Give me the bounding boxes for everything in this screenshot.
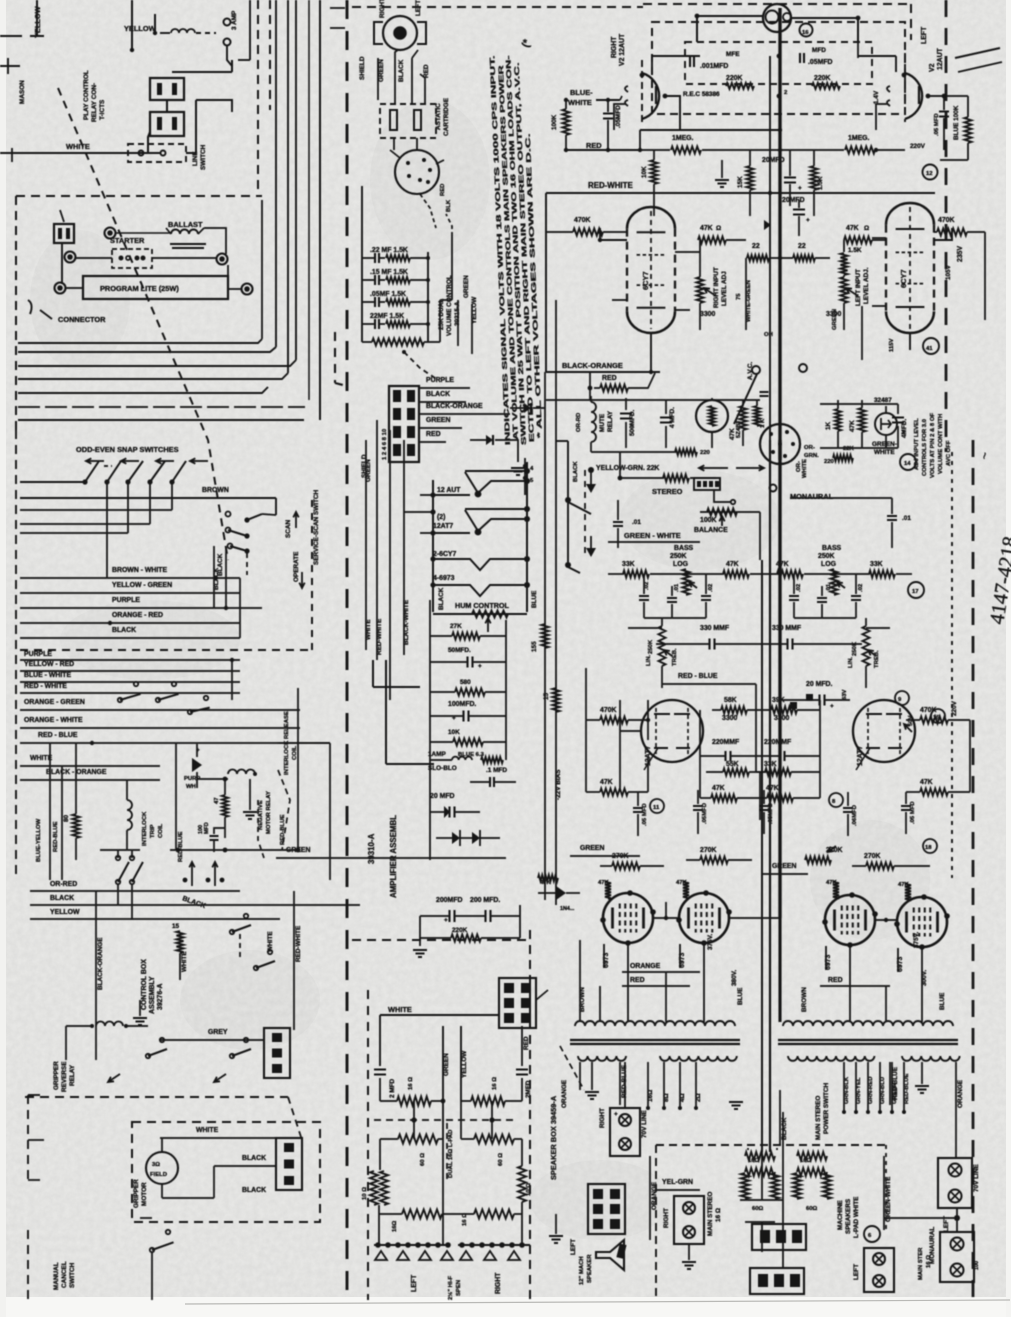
ground - main stereo right xyxy=(682,1244,696,1269)
svg-text:(2): (2) xyxy=(437,514,445,521)
switch - snap switch bank xyxy=(20,458,208,484)
capacitor .05MFD input xyxy=(603,100,622,152)
svg-text:RED-WHITE: RED-WHITE xyxy=(376,618,383,655)
wire - brown-white xyxy=(20,567,240,580)
svg-text:BLACK: BLACK xyxy=(242,1155,266,1162)
label ORANGE xfmr xyxy=(561,1062,599,1108)
capacitor/resistor 22MF 1.5K xyxy=(362,313,430,329)
svg-text:SCAN: SCAN xyxy=(285,520,292,538)
terminal - right 70V line xyxy=(599,1108,648,1156)
svg-text:OPERATE: OPERATE xyxy=(293,551,300,582)
svg-text:ORANGE - WHITE: ORANGE - WHITE xyxy=(24,717,83,724)
wire - orange-red xyxy=(20,612,240,625)
capacitor 2MFD spk right xyxy=(516,1070,532,1102)
svg-text:TREB.: TREB. xyxy=(874,650,880,668)
resistor 16ohm s1 xyxy=(380,1077,443,1110)
wire - black-orange3 xyxy=(20,769,160,780)
wire - mid risers xyxy=(278,688,330,880)
svg-text:47K: 47K xyxy=(700,225,713,232)
circle tp 15 xyxy=(908,709,945,726)
svg-text:RED: RED xyxy=(523,1036,530,1050)
svg-text:220MMF: 220MMF xyxy=(764,739,791,746)
switch - control contacts1 xyxy=(230,905,251,960)
svg-text:60Ω: 60Ω xyxy=(752,1206,764,1212)
resistor 270K a xyxy=(600,853,664,870)
terminal - starter left xyxy=(65,252,76,263)
label GREEN-WHITE mid xyxy=(608,512,760,542)
svg-text:GREEN-WHITE: GREEN-WHITE xyxy=(885,1176,892,1222)
label machine speakers lpad xyxy=(837,1196,860,1238)
label ORANGE far right xyxy=(956,1062,964,1115)
label - speaker box xyxy=(549,1095,558,1180)
svg-text:MUTE: MUTE xyxy=(599,413,606,432)
svg-text:RED - WHITE: RED - WHITE xyxy=(24,683,67,690)
svg-text:WHITE: WHITE xyxy=(388,1005,412,1014)
svg-text:220V: 220V xyxy=(951,700,958,716)
label YELLOW-GRN 22K xyxy=(573,452,716,555)
wire - tone mid rails xyxy=(608,548,940,618)
svg-text:DUAL 16Ω L-PAD: DUAL 16Ω L-PAD xyxy=(448,1130,454,1178)
svg-text:BALANCE: BALANCE xyxy=(694,527,728,534)
svg-text:47K: 47K xyxy=(920,779,933,786)
capacitor .05MFD d5 xyxy=(901,792,916,834)
capacitor .01 right xyxy=(790,498,911,548)
svg-text:10K: 10K xyxy=(448,729,460,736)
svg-text:CARTRIDGE: CARTRIDGE xyxy=(443,97,450,136)
wire - purple2 xyxy=(20,651,240,660)
ground - control box xyxy=(133,1000,180,1025)
svg-text:BLACK: BLACK xyxy=(438,587,445,610)
svg-text:BLACK-ORANGE: BLACK-ORANGE xyxy=(562,361,623,370)
resistor 470K drv-l xyxy=(586,700,650,740)
svg-text:LIN.: LIN. xyxy=(848,657,854,668)
svg-text:STARTER: STARTER xyxy=(110,236,145,245)
svg-text:BLACK: BLACK xyxy=(398,59,405,82)
svg-text:80: 80 xyxy=(63,814,70,822)
svg-text:GRN.: GRN. xyxy=(804,453,819,459)
svg-text:NEGATIVE: NEGATIVE xyxy=(258,800,264,830)
relay - gripper reverse relay xyxy=(53,1022,128,1093)
svg-text:-22V BIAS: -22V BIAS xyxy=(555,769,562,800)
wire - blue-white2 xyxy=(20,672,240,682)
wire - harness bundle horizontals xyxy=(18,339,305,420)
svg-text:MOTOR: MOTOR xyxy=(141,1182,148,1206)
potentiometer treble right xyxy=(848,618,880,688)
resistor RED mute xyxy=(588,373,655,400)
svg-text:100: 100 xyxy=(974,1261,980,1270)
svg-text:470K: 470K xyxy=(920,707,936,714)
svg-text:MFD: MFD xyxy=(204,822,210,834)
svg-text:GREEN: GREEN xyxy=(378,59,385,82)
note - measurement conditions (rotated) xyxy=(489,37,544,445)
svg-text:.02: .02 xyxy=(858,583,864,592)
switch - gripper contacts xyxy=(108,1026,251,1082)
label CONNECTOR xyxy=(28,300,106,324)
wire - red-blue xyxy=(20,732,330,745)
wire - left supply rail xyxy=(430,600,506,860)
svg-text:LOG: LOG xyxy=(821,561,836,568)
svg-text:.05MFD: .05MFD xyxy=(808,59,833,66)
svg-text:1.5K: 1.5K xyxy=(848,247,862,254)
svg-text:220V: 220V xyxy=(910,143,926,150)
cartridge - astatic xyxy=(380,97,450,150)
wire - yellow fuse feed xyxy=(130,0,157,52)
terminal - right mid xyxy=(217,254,229,288)
resistor 47K tone-l xyxy=(686,561,780,578)
svg-text:.01: .01 xyxy=(632,519,641,526)
label BLUE-WHITE xyxy=(568,88,622,107)
resistor 100K vertical xyxy=(551,98,570,150)
diode bias 1 xyxy=(538,875,580,912)
svg-text:470K: 470K xyxy=(938,217,954,224)
svg-text:270K: 270K xyxy=(864,853,880,860)
svg-text:COIL: COIL xyxy=(158,824,164,838)
resistor 10ohm s left xyxy=(362,1170,388,1214)
capacitor/resistor .15 MF 1.5K xyxy=(362,269,430,285)
svg-text:20 MFD: 20 MFD xyxy=(430,793,455,800)
svg-text:375V.: 375V. xyxy=(707,934,714,950)
wire - amplifier dashed right edge lower xyxy=(972,440,975,1300)
svg-text:+: + xyxy=(830,703,834,710)
label red-blue rot2 xyxy=(278,770,290,850)
wire - pin4-5 drops xyxy=(523,458,534,495)
svg-text:LEFT: LEFT xyxy=(853,1264,860,1280)
svg-text:.01: .01 xyxy=(674,583,680,592)
wire - harness verticals to selector xyxy=(262,0,320,420)
svg-text:INTERLOCK: INTERLOCK xyxy=(142,811,148,846)
potentiometer left input level xyxy=(826,267,870,330)
svg-text:20 MFD.: 20 MFD. xyxy=(806,681,833,688)
svg-text:330 MMF: 330 MMF xyxy=(700,625,729,632)
svg-text:330 MMF: 330 MMF xyxy=(772,625,801,632)
svg-text:GRN-BLK: GRN-BLK xyxy=(844,1076,850,1104)
svg-text:BLUE 100K: BLUE 100K xyxy=(953,105,960,140)
heater 4-6973 xyxy=(430,575,530,596)
svg-text:70V LINE: 70V LINE xyxy=(973,1164,980,1192)
svg-text:22: 22 xyxy=(752,243,760,250)
label - vertical wire colors xyxy=(365,459,410,655)
wire - control box dashed separator xyxy=(25,1097,302,1140)
resistor 22 left xyxy=(746,243,782,261)
heater 2-6CY7 xyxy=(430,551,530,570)
switch - interlock lower contacts xyxy=(100,800,300,920)
label OR-GRN 220 xyxy=(804,441,897,465)
capacitor 4MFD right xyxy=(892,404,908,448)
wire - dual lpad divider xyxy=(374,1101,516,1180)
switch - service scan switch xyxy=(214,512,305,609)
capacitor .01 r2 xyxy=(817,583,832,618)
capacitor .05MFD d3 xyxy=(759,790,774,834)
svg-text:PURPLE: PURPLE xyxy=(112,597,140,604)
svg-text:RELAY CON-: RELAY CON- xyxy=(91,83,98,122)
resistor 47K drv-c2 xyxy=(760,785,820,802)
svg-text:YELLOW: YELLOW xyxy=(124,24,156,33)
svg-text:YEL-GRN: YEL-GRN xyxy=(662,1179,693,1186)
label YELLOW xyxy=(124,24,156,33)
svg-text:15K: 15K xyxy=(737,176,744,188)
svg-text:SPEAKERS: SPEAKERS xyxy=(845,1198,852,1234)
svg-text:BLACK: BLACK xyxy=(213,567,220,590)
svg-text:RIGHT: RIGHT xyxy=(663,1208,670,1228)
wire - mute bus blades xyxy=(556,441,596,573)
wire - black drop xyxy=(780,1090,783,1230)
wire - plate drops xyxy=(580,940,922,1022)
svg-text:12" MACH: 12" MACH xyxy=(579,1256,585,1285)
label RED-BLUE sec xyxy=(620,1062,628,1105)
wire - shield leads xyxy=(359,50,430,104)
svg-text:1MEG.: 1MEG. xyxy=(848,135,870,142)
label RED-BLUE xyxy=(590,668,756,700)
svg-text:GRN-RED: GRN-RED xyxy=(868,1077,874,1105)
svg-text:25K DUAL: 25K DUAL xyxy=(438,299,445,330)
potentiometer right input level xyxy=(697,252,729,330)
svg-text:1MEG.: 1MEG. xyxy=(672,135,694,142)
connector - speaker box head xyxy=(499,978,548,1028)
potentiometer - hum control xyxy=(433,601,527,632)
tube V2 12AU7 right half xyxy=(876,26,949,150)
potentiometer 100K balance xyxy=(620,509,737,535)
svg-text:ORANGE - RED: ORANGE - RED xyxy=(112,612,163,619)
svg-text:T-ICTS: T-ICTS xyxy=(99,99,106,120)
wire - stereo rails xyxy=(620,498,790,560)
potentiometer bass 250K right xyxy=(818,545,845,595)
wire - relay area rails xyxy=(546,400,898,452)
tube 6CY7 left xyxy=(598,207,700,372)
wire - yellow lead top-left xyxy=(30,0,44,38)
label YELLOW spk xyxy=(461,1026,468,1101)
svg-text:250K: 250K xyxy=(852,641,858,656)
tube 12AT7 left xyxy=(620,700,703,770)
fuse 1AMP SLO-BLO xyxy=(428,751,503,772)
svg-text:CONTROLS FOR 3.0: CONTROLS FOR 3.0 xyxy=(922,418,928,476)
svg-text:ADJ INPUT LEVEL: ADJ INPUT LEVEL xyxy=(914,418,920,470)
label WHITE spk xyxy=(380,1005,499,1066)
svg-text:47K: 47K xyxy=(846,225,859,232)
wire - speaker box second dashed edge xyxy=(367,990,369,1300)
wire - to amp xyxy=(440,214,452,342)
svg-text:250K: 250K xyxy=(648,639,654,654)
wire - orange-white xyxy=(20,658,300,728)
svg-text:SPEAKER BOX 39459-A: SPEAKER BOX 39459-A xyxy=(549,1095,558,1180)
label ORANGE right-mid xyxy=(650,1156,658,1240)
wire - grid caps dashed inner box xyxy=(683,42,880,104)
rectifier - ballast lamp xyxy=(696,398,742,448)
label GREEN YELLOW rotated xyxy=(458,275,478,354)
phono plug xyxy=(374,0,426,50)
resistor 47K out4 xyxy=(898,882,911,901)
svg-text:WHITE: WHITE xyxy=(267,931,274,952)
svg-text:RED: RED xyxy=(602,375,617,382)
svg-text:LEVEL ADJ.: LEVEL ADJ. xyxy=(863,267,870,304)
svg-text:CONTROL BOX: CONTROL BOX xyxy=(141,959,148,1010)
svg-text:60 Ω: 60 Ω xyxy=(420,1153,426,1166)
svg-text:100K: 100K xyxy=(700,517,716,524)
resistor 47K tone-r xyxy=(776,561,836,578)
svg-text:.22 MF 1.5K: .22 MF 1.5K xyxy=(370,247,408,254)
svg-text:WHITE: WHITE xyxy=(874,449,895,456)
svg-text:.05 MFD: .05 MFD xyxy=(642,803,648,826)
svg-text:WHITE: WHITE xyxy=(568,98,592,107)
capacitor .02 r1 xyxy=(789,574,802,618)
svg-text:WHITE: WHITE xyxy=(365,619,372,640)
svg-text:14: 14 xyxy=(904,461,911,467)
label - amplifier assembly xyxy=(367,815,398,898)
label RED xyxy=(564,130,642,152)
resistor 33K left xyxy=(608,561,688,578)
wire - left bias column xyxy=(531,193,562,905)
svg-text:+: + xyxy=(614,1111,618,1118)
svg-text:MAIN STER: MAIN STER xyxy=(918,1247,924,1280)
svg-text:R.E.C 58386: R.E.C 58386 xyxy=(683,91,720,98)
terminal - left main stereo xyxy=(853,1226,932,1292)
connector - left mach speaker xyxy=(570,1184,625,1285)
label black-orange rot xyxy=(96,891,104,1060)
resistor 47K drv-r xyxy=(906,720,970,796)
svg-text:16Ω: 16Ω xyxy=(392,1220,398,1232)
svg-text:270K: 270K xyxy=(612,853,628,860)
svg-text:2 MFD: 2 MFD xyxy=(389,1078,396,1098)
tube 6973 #2 xyxy=(676,890,732,968)
svg-text:GREEN: GREEN xyxy=(832,309,838,330)
wire - 330mmf bus xyxy=(628,624,890,644)
wire - grid caps dashed outer box xyxy=(652,22,905,114)
wire - output tube links xyxy=(653,880,897,922)
svg-text:3300: 3300 xyxy=(700,311,715,318)
terminal - speaker right lugs xyxy=(447,1214,530,1300)
svg-text:RIGHT: RIGHT xyxy=(611,36,618,58)
resistor 270K c xyxy=(805,846,842,864)
resistor 47K out3 xyxy=(826,880,839,899)
svg-text:RED: RED xyxy=(440,184,446,196)
heater (2) 12AT7 xyxy=(404,506,530,536)
resistor 470K left xyxy=(546,217,627,236)
svg-text:115V: 115V xyxy=(889,338,895,352)
capacitor/resistor .05MF 1.5K xyxy=(362,291,430,307)
wire - dashed diagonal connector boundary xyxy=(58,88,228,560)
svg-text:LEFT: LEFT xyxy=(921,26,928,44)
svg-text:ODD-EVEN SNAP SWITCHES: ODD-EVEN SNAP SWITCHES xyxy=(76,445,179,454)
wire - yellow4 xyxy=(30,909,280,919)
terminal - speaker left lugs xyxy=(374,1139,453,1292)
capacitor .02 l3 xyxy=(701,574,714,618)
svg-text:PURPLE: PURPLE xyxy=(24,651,52,658)
wire - left rot labels xyxy=(36,743,62,880)
svg-text:PROGRAM LITE (25W): PROGRAM LITE (25W) xyxy=(100,284,179,293)
svg-text:V2: V2 xyxy=(929,63,936,72)
svg-text:RIGHT: RIGHT xyxy=(599,1108,606,1128)
label 375V right xyxy=(731,932,946,1012)
svg-text:100MFD.: 100MFD. xyxy=(448,701,476,708)
svg-text:27K: 27K xyxy=(450,623,462,630)
resistor 270K b xyxy=(686,847,752,864)
svg-text:375V.: 375V. xyxy=(913,932,920,948)
svg-text:580: 580 xyxy=(460,679,471,686)
svg-text:47K: 47K xyxy=(776,561,789,568)
wire - interlock contacts xyxy=(118,660,210,714)
svg-text:60 Ω: 60 Ω xyxy=(498,1153,504,1166)
resistor 10ohm s right xyxy=(518,1139,532,1214)
svg-text:4-6973: 4-6973 xyxy=(433,575,455,582)
svg-text:BROWN - WHITE: BROWN - WHITE xyxy=(112,567,168,574)
label - line switch xyxy=(192,144,207,170)
capacitor/resistor .22 MF 1.5K xyxy=(362,247,430,263)
resistor 47K drv-l xyxy=(586,756,648,796)
resistor 33K right xyxy=(834,561,924,598)
capacitor 200MFD pair xyxy=(276,847,520,957)
wire WHITE xyxy=(0,132,150,153)
ground - interlock xyxy=(243,779,257,819)
scan smudges xyxy=(30,100,930,1240)
svg-text:41: 41 xyxy=(926,346,933,352)
svg-text:20MFD: 20MFD xyxy=(762,157,785,164)
svg-text:47: 47 xyxy=(214,797,220,804)
svg-text:3300: 3300 xyxy=(722,715,737,722)
svg-text:200 MFD.: 200 MFD. xyxy=(470,897,500,904)
label green rotated right xyxy=(832,309,838,330)
svg-text:RED-BLUE: RED-BLUE xyxy=(178,831,184,862)
capacitor .05MFD d1 xyxy=(633,792,648,836)
resistor 15K center-left xyxy=(715,150,824,216)
potentiometer treble left xyxy=(646,618,678,688)
svg-text:SWITCH: SWITCH xyxy=(69,1262,76,1288)
svg-text:10K: 10K xyxy=(641,166,648,178)
svg-text:RED - BLUE: RED - BLUE xyxy=(678,673,718,680)
tube socket - AVC xyxy=(675,424,808,478)
wire - black gm1 xyxy=(162,1155,276,1198)
svg-text:CONNECTOR: CONNECTOR xyxy=(58,315,106,324)
svg-text:6CY7: 6CY7 xyxy=(641,272,650,291)
capacitor 50MFD xyxy=(430,647,506,670)
wire - dashed boundary top-left corner xyxy=(258,0,270,196)
svg-text:BLUE: BLUE xyxy=(737,987,744,1005)
svg-text:RED: RED xyxy=(586,141,602,150)
wire - 6CY7 bottom rails xyxy=(600,350,910,374)
svg-text:RED - BLUE: RED - BLUE xyxy=(38,732,78,739)
svg-text:2½" HI-F: 2½" HI-F xyxy=(447,1276,454,1300)
resistor 470K right xyxy=(934,217,985,320)
capacitor .1MFD xyxy=(470,767,516,787)
fuse 3 AMP xyxy=(160,10,238,66)
svg-text:BLUE - WHITE: BLUE - WHITE xyxy=(24,672,71,679)
switch - manual cancel xyxy=(140,1218,174,1300)
svg-text:MAIN STEREO: MAIN STEREO xyxy=(815,1096,822,1140)
capacitor 220MMF left xyxy=(700,739,770,776)
svg-text:12AT7: 12AT7 xyxy=(433,523,453,530)
svg-text:MFD: MFD xyxy=(812,47,826,54)
svg-text:16 Ω: 16 Ω xyxy=(926,1255,932,1268)
svg-text:.1 MFD: .1 MFD xyxy=(486,767,507,774)
resistor 27K xyxy=(430,623,506,640)
svg-text:.05 MFD: .05 MFD xyxy=(910,801,916,824)
svg-text:220K: 220K xyxy=(814,75,830,82)
resistor network right 16ohm xyxy=(793,1152,831,1212)
wire - heater buses xyxy=(433,462,538,612)
svg-text:VOLUME CONTROL: VOLUME CONTROL xyxy=(446,275,453,336)
wire - dashed unit boundary vertical (selector unit) xyxy=(312,0,347,1300)
svg-text:ORANGE: ORANGE xyxy=(957,1079,964,1108)
svg-text:SPEN: SPEN xyxy=(456,1280,462,1296)
wire - red-white2 xyxy=(20,683,240,693)
wire - amp input verticals xyxy=(366,420,404,700)
svg-text:6CY7: 6CY7 xyxy=(899,270,908,289)
label RED spk xyxy=(522,1026,530,1066)
wire - heavy center rail second xyxy=(769,56,771,440)
svg-text:BLK: BLK xyxy=(446,199,452,212)
switch - stereo/monaural xyxy=(652,465,834,504)
svg-text:OR-RED: OR-RED xyxy=(50,881,77,888)
capacitor 20MFD xyxy=(430,793,480,818)
svg-text:.001MFD: .001MFD xyxy=(700,63,728,70)
